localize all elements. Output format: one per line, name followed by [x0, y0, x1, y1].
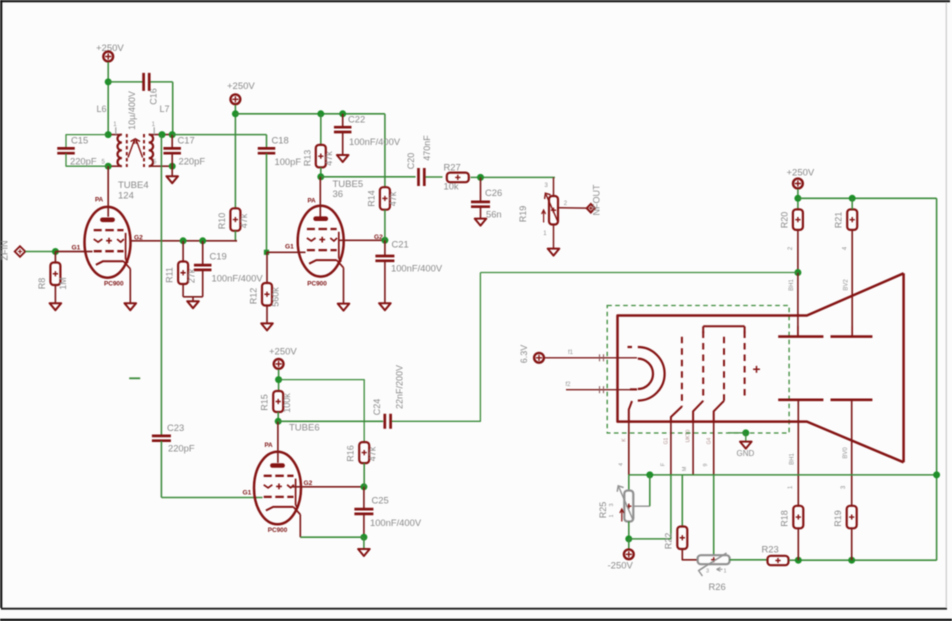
svg-text:R13: R13	[302, 150, 312, 167]
svg-text:PA: PA	[308, 198, 317, 205]
svg-text:+250V: +250V	[787, 168, 815, 179]
svg-text:100nF/400V: 100nF/400V	[349, 136, 401, 147]
svg-text:5: 5	[102, 160, 106, 166]
svg-text:560k: 560k	[270, 287, 280, 307]
svg-text:C21: C21	[392, 239, 409, 250]
svg-text:4: 4	[843, 246, 849, 250]
svg-text:10µ/400V: 10µ/400V	[127, 91, 137, 130]
svg-text:1: 1	[543, 231, 547, 237]
svg-text:R27: R27	[444, 162, 461, 173]
svg-text:L7: L7	[160, 104, 170, 114]
svg-text:47k: 47k	[368, 446, 378, 461]
svg-text:C16: C16	[148, 88, 158, 105]
svg-text:ZFIN: ZFIN	[0, 241, 10, 261]
svg-text:M: M	[682, 466, 688, 471]
svg-text:100k: 100k	[282, 393, 292, 413]
svg-text:2: 2	[788, 246, 794, 250]
svg-text:C17: C17	[178, 135, 195, 146]
svg-text:PA: PA	[265, 442, 274, 449]
svg-text:R11: R11	[165, 267, 175, 283]
svg-text:PC900: PC900	[104, 281, 124, 288]
svg-text:56n: 56n	[486, 209, 502, 220]
svg-text:PC900: PC900	[268, 527, 288, 534]
svg-text:1: 1	[724, 569, 727, 575]
svg-text:C19: C19	[210, 251, 227, 262]
svg-text:BH1: BH1	[789, 279, 795, 291]
svg-text:R12: R12	[248, 288, 258, 305]
svg-text:+250V: +250V	[269, 347, 297, 358]
svg-text:4: 4	[619, 463, 625, 466]
svg-text:NFOUT: NFOUT	[592, 184, 602, 215]
svg-text:9: 9	[703, 463, 709, 466]
svg-text:6.3V: 6.3V	[519, 345, 529, 364]
svg-text:1: 1	[113, 122, 117, 128]
svg-text:f1: f1	[568, 350, 574, 356]
svg-text:47k: 47k	[388, 191, 398, 206]
svg-text:C22: C22	[348, 114, 365, 125]
svg-text:100nF/400V: 100nF/400V	[370, 517, 422, 528]
svg-text:G1: G1	[243, 490, 252, 497]
svg-text:R26: R26	[709, 581, 726, 592]
svg-text:C23: C23	[167, 422, 184, 433]
svg-text:36: 36	[333, 189, 344, 200]
svg-text:R25: R25	[598, 502, 608, 519]
svg-text:10k: 10k	[444, 181, 459, 192]
svg-text:GND: GND	[737, 449, 755, 458]
svg-text:100nF/400V: 100nF/400V	[391, 263, 443, 274]
svg-text:G4: G4	[706, 437, 712, 444]
svg-text:3: 3	[609, 503, 615, 506]
svg-text:-250V: -250V	[608, 561, 634, 572]
svg-text:C25: C25	[372, 495, 389, 506]
svg-text:2: 2	[564, 201, 568, 207]
svg-text:124: 124	[118, 191, 134, 202]
svg-text:3: 3	[545, 183, 549, 189]
svg-text:R14: R14	[366, 190, 376, 207]
svg-text:K: K	[622, 438, 628, 442]
svg-text:47k: 47k	[239, 213, 249, 228]
svg-text:PC900: PC900	[307, 281, 327, 288]
svg-text:G1: G1	[72, 244, 81, 251]
svg-text:C20: C20	[406, 153, 416, 170]
svg-text:F: F	[661, 462, 667, 466]
svg-text:220pF: 220pF	[168, 443, 195, 454]
svg-text:+250V: +250V	[227, 81, 255, 92]
svg-text:3: 3	[706, 569, 709, 575]
svg-text:G1: G1	[664, 437, 670, 444]
svg-text:R18: R18	[780, 510, 790, 527]
svg-text:47k: 47k	[324, 151, 334, 166]
svg-text:22nF/200V: 22nF/200V	[395, 365, 405, 409]
svg-text:R22: R22	[664, 533, 674, 550]
svg-text:L6: L6	[97, 104, 107, 114]
svg-text:R16: R16	[346, 445, 356, 462]
svg-text:3: 3	[841, 485, 847, 489]
svg-text:TUBE4: TUBE4	[118, 180, 149, 191]
svg-text:100pF: 100pF	[275, 156, 302, 167]
svg-text:220pF: 220pF	[70, 156, 97, 167]
svg-text:TUBE6: TUBE6	[289, 423, 320, 434]
svg-text:1: 1	[609, 514, 615, 517]
svg-text:BV2: BV2	[843, 279, 849, 291]
svg-text:R15: R15	[260, 394, 270, 411]
svg-text:100nF/400V: 100nF/400V	[212, 273, 264, 284]
svg-text:R8: R8	[37, 278, 47, 290]
svg-text:f2: f2	[566, 382, 572, 388]
svg-text:G2: G2	[304, 480, 313, 487]
svg-text:R10: R10	[217, 213, 227, 230]
svg-text:R20: R20	[779, 212, 789, 229]
svg-text:C26: C26	[485, 187, 502, 198]
svg-text:R19: R19	[833, 510, 843, 527]
svg-text:C24: C24	[372, 399, 382, 416]
svg-text:R19: R19	[518, 206, 528, 223]
svg-text:R23: R23	[762, 544, 779, 555]
svg-text:C18: C18	[272, 135, 289, 146]
svg-text:G1: G1	[285, 244, 294, 251]
svg-text:470nF: 470nF	[422, 135, 432, 161]
svg-text:BH1: BH1	[789, 453, 795, 465]
svg-text:1: 1	[152, 122, 156, 128]
svg-text:R21: R21	[834, 212, 844, 229]
svg-text:220pF: 220pF	[179, 156, 206, 167]
svg-text:PA: PA	[95, 197, 104, 204]
svg-text:UKT0: UKT0	[686, 429, 692, 442]
svg-text:1: 1	[788, 485, 794, 489]
svg-text:C15: C15	[71, 135, 88, 146]
svg-text:BV0: BV0	[843, 447, 849, 459]
svg-text:1M: 1M	[58, 277, 68, 290]
svg-text:5: 5	[153, 160, 157, 166]
